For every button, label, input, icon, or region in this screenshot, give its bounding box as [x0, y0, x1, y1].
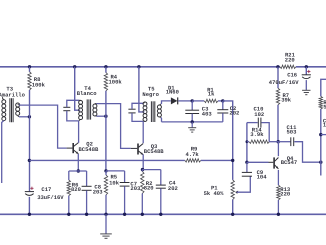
wire R13 to bottom rail [277, 200, 279, 214]
transformer T4 core [86, 99, 88, 119]
wire R5 to bottom rail [105, 195, 107, 215]
junction C4 bottom rail [159, 213, 162, 216]
wire C2 node jog down to P1 [223, 101, 233, 180]
transformer T3 primary coil [2, 100, 6, 104]
svg-text:Amarillo: Amarillo [0, 92, 26, 99]
junction C2 node [221, 99, 224, 102]
svg-text:820: 820 [144, 185, 154, 192]
junction Q4 collector node [277, 140, 280, 143]
wire base node to Q4 [247, 161, 269, 163]
svg-text:3.9k: 3.9k [250, 131, 264, 138]
wire R5 node to C7 [106, 170, 125, 172]
wire Q2 collector to T4 primary [78, 121, 80, 143]
junction Q2 emitter node [77, 169, 80, 172]
resistor R14 [247, 141, 249, 143]
wire Q2 emitter down [77, 154, 79, 171]
wire Q3 emitter down [142, 154, 144, 169]
junction R13 bottom rail [277, 213, 280, 216]
junction T3 secondary bottom [28, 115, 31, 118]
svg-text:5k 40%: 5k 40% [204, 190, 225, 197]
capacitor T5 tuning [128, 108, 135, 110]
transformer T4 primary coil [79, 100, 83, 104]
wire T5 cap bottom to primary bottom [132, 113, 143, 121]
wire R4 to R5 node [105, 91, 107, 171]
wire T3 primary bottom to left edge [2, 121, 4, 183]
svg-text:BC548B: BC548B [144, 148, 165, 155]
svg-text:220: 220 [280, 191, 290, 198]
svg-text:1N60: 1N60 [166, 89, 179, 96]
wire C11 to output node [294, 142, 321, 163]
wire ground stem bottom [105, 214, 107, 233]
wire right edge stub [321, 134, 326, 136]
wire R6 to bottom rail [68, 196, 70, 215]
junction detector node [191, 99, 194, 102]
transformer T5 primary coil [143, 102, 147, 106]
junction C8 bottom rail [85, 213, 88, 216]
resistor R edge [319, 96, 322, 109]
resistor R1 [204, 99, 218, 102]
wire R8 to C17 node [29, 90, 31, 191]
resistor R2 [141, 170, 143, 172]
svg-text:104: 104 [257, 174, 268, 181]
junction detector ground node [191, 120, 194, 123]
svg-text:100k: 100k [109, 79, 123, 86]
wire Q4 collector up [277, 142, 279, 157]
svg-text:C17: C17 [41, 186, 51, 193]
wire rail to R7 [277, 67, 279, 88]
resistor R13 [277, 185, 280, 200]
wire C16 to ground [305, 80, 307, 90]
diode D1 1N60 [171, 97, 178, 104]
ground C16 [302, 89, 310, 91]
wire T3 secondary bottom to node [19, 116, 29, 118]
svg-text:1k: 1k [208, 91, 215, 98]
svg-text:102: 102 [254, 111, 264, 118]
wire R edge down [320, 109, 322, 176]
junction R2 bottom rail [141, 213, 144, 216]
potentiometer P1 [231, 180, 234, 200]
resistor R21 (inline on top rail) [280, 65, 296, 68]
wire bottom ground rail [0, 213, 326, 215]
wire T3 secondary top to Q2 base [19, 105, 67, 148]
junction C7 bottom rail [123, 213, 126, 216]
junction T4 secondary bottom [104, 115, 107, 118]
wire T4 secondary bottom to node [96, 115, 106, 117]
junction AGC wire start [28, 159, 31, 162]
svg-text:202: 202 [168, 185, 178, 192]
capacitor C7 [124, 171, 126, 182]
ground bottom [100, 233, 112, 235]
transformer T5 core [150, 101, 152, 122]
transformer T3 secondary coil [16, 103, 20, 107]
junction R6 bottom rail [67, 213, 70, 216]
junction C17 bottom rail [28, 213, 31, 216]
resistor R6 [68, 171, 70, 180]
wire Q4 base column [246, 123, 248, 163]
junction output node [319, 161, 322, 164]
wire rail to R8 [29, 67, 31, 72]
svg-text:Negro: Negro [142, 91, 159, 98]
resistor R4 [104, 73, 107, 91]
junction Q3 emitter node [141, 168, 144, 171]
wire R7 to collector node [277, 105, 279, 142]
transistor Q2 BC548B [72, 143, 74, 153]
capacitor C10 [247, 122, 258, 124]
wire rail to R4 [105, 67, 107, 73]
svg-text:Blanco: Blanco [77, 90, 98, 97]
wire Q3 emitter node horizontal [142, 169, 161, 171]
wire R1 right to C2 node [218, 100, 223, 102]
capacitor C9 [246, 162, 248, 172]
junction top rail T5 tap [137, 65, 140, 68]
svg-text:203: 203 [93, 189, 104, 196]
wire C8 to bottom rail [86, 191, 88, 215]
wire P1 to bottom rail [232, 200, 234, 215]
transformer T4 secondary coil [93, 104, 97, 108]
capacitor C4 [160, 170, 162, 185]
wire C4 to bottom rail [160, 188, 162, 214]
wire Q4 emitter down [277, 170, 279, 185]
transformer T3 core [9, 98, 11, 122]
wire detector node to R1 [192, 100, 204, 102]
svg-text:C16: C16 [287, 72, 297, 79]
junction top rail C16 [305, 65, 308, 68]
svg-text:470uF/16V: 470uF/16V [269, 79, 299, 86]
junction top rail R8 [28, 65, 31, 68]
junction top rail T4 tap [73, 65, 76, 68]
svg-text:39k: 39k [281, 97, 292, 104]
svg-text:203: 203 [130, 185, 141, 192]
wire P1 wiper to C9 [237, 176, 251, 192]
resistor R5 [105, 171, 107, 175]
svg-text:820: 820 [71, 186, 81, 193]
wire R14 right to node [269, 141, 278, 143]
junction top rail R4 [104, 65, 107, 68]
svg-text:BC547: BC547 [281, 159, 298, 166]
wire top supply rail segment right [296, 66, 326, 68]
svg-text:10k: 10k [109, 180, 120, 187]
junction right edge node [319, 133, 322, 136]
resistor R8 [28, 72, 31, 90]
svg-text:403: 403 [202, 110, 213, 117]
wire T5 secondary top to diode [161, 101, 171, 104]
wire T4 cap bottom to primary bottom [67, 111, 79, 121]
wire Q3 collector to T5 primary [142, 121, 144, 143]
capacitor T4 tuning [63, 106, 70, 108]
wire R2 to bottom rail [141, 194, 143, 215]
wire Q2 emitter node horizontal [69, 170, 87, 172]
resistor R9 (inline) [185, 159, 201, 162]
wire C17 to bottom rail [28, 197, 30, 214]
capacitor C17 33uF/16V [25, 191, 34, 193]
junction R9 P1 node [231, 159, 234, 162]
wire T4 secondary top to Q3 base [96, 104, 130, 149]
wire AGC feedback left segment [29, 159, 184, 161]
transformer T5 secondary coil [157, 105, 161, 109]
svg-text:202: 202 [229, 110, 239, 117]
capacitor C11 [278, 141, 290, 143]
ground detector [188, 127, 196, 129]
transistor Q4 BC547 [273, 157, 275, 168]
capacitor C3 [191, 101, 193, 110]
wire detector bottom [162, 121, 223, 123]
junction R5 bottom rail [104, 213, 107, 216]
svg-text:33uF/16V: 33uF/16V [37, 194, 64, 201]
svg-text:4.7k: 4.7k [186, 151, 200, 158]
capacitor C2 [222, 101, 224, 110]
wire top supply rail segment left [0, 66, 280, 68]
capacitor C16 470uF/16V [305, 67, 307, 75]
wire ground stem detector [191, 122, 193, 128]
wire T5 secondary bottom down [160, 118, 163, 122]
wire rail to T4 tap [75, 67, 81, 110]
resistor R7 [276, 88, 279, 105]
wire T4 cap top to primary top [67, 100, 79, 107]
wire diode cathode to node [178, 100, 192, 102]
junction R5 node [104, 169, 107, 172]
wire C7 to bottom rail [124, 186, 126, 214]
junction top rail R7 [276, 65, 279, 68]
capacitor C8 [86, 171, 88, 186]
junction Q4 base node [245, 161, 248, 164]
svg-text:220: 220 [285, 57, 295, 64]
transistor Q3 BC548B [137, 144, 139, 155]
wire right edge feed [321, 79, 326, 96]
junction R14 left [246, 140, 249, 143]
svg-text:BC548B: BC548B [79, 146, 100, 153]
svg-text:100k: 100k [32, 81, 46, 88]
wire T5 cap top to primary top [132, 103, 144, 109]
wire AGC feedback right segment [201, 159, 233, 161]
junction P1 bottom rail [231, 213, 234, 216]
svg-text:503: 503 [287, 128, 298, 135]
wire rail to T5 tap [139, 67, 145, 112]
